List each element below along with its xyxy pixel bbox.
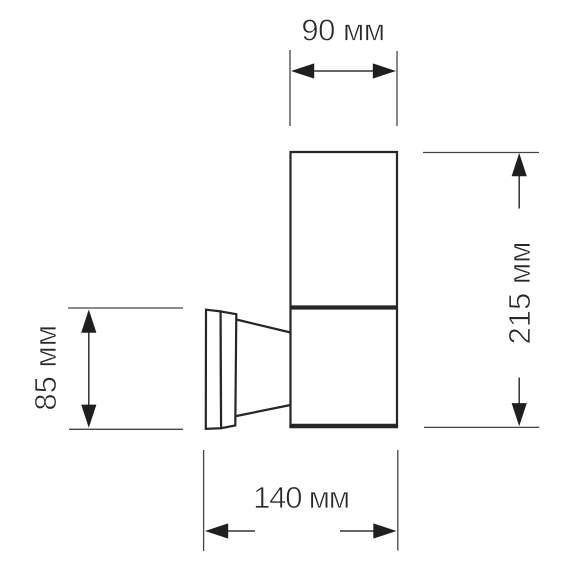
top dimension right arrowhead: [373, 63, 396, 78]
svg-text:85 мм: 85 мм: [28, 325, 63, 411]
svg-text:140 мм: 140 мм: [253, 480, 349, 515]
left dimension top extension line: [68, 307, 183, 309]
left dimension line: [88, 330, 90, 407]
bracket cone top line: [236, 320, 290, 333]
top dimension left arrowhead: [291, 63, 314, 78]
bottom dimension right arrowhead: [373, 523, 396, 538]
wall mount back plate: [206, 310, 221, 429]
right dimension top arrowhead: [512, 153, 527, 176]
bottom dimension right extension line: [397, 450, 399, 551]
lamp body cylinder outline: [291, 152, 398, 427]
left dimension bottom extension line: [69, 428, 183, 430]
right dimension bottom extension line: [424, 426, 539, 428]
lamp body section divider thick line: [290, 305, 398, 309]
wall mount front plate: [221, 311, 237, 428]
svg-text:215 мм: 215 мм: [502, 242, 537, 345]
right dimension top extension line: [423, 152, 539, 154]
lamp body bottom cap thick edge: [289, 424, 398, 428]
svg-text:90 мм: 90 мм: [301, 13, 384, 48]
top dimension left extension line: [289, 50, 291, 126]
top dimension line: [311, 70, 375, 72]
bracket cone bottom line: [236, 405, 290, 416]
right dimension bottom arrowhead: [512, 403, 527, 426]
right dimension lower line segment: [518, 378, 520, 407]
bottom dimension right tail line: [340, 530, 375, 532]
right dimension upper line segment: [518, 173, 520, 209]
bottom dimension left arrowhead: [205, 523, 228, 538]
top dimension right extension line: [396, 51, 398, 126]
bottom dimension left extension line: [203, 450, 205, 551]
bottom dimension left tail line: [226, 530, 255, 532]
left dimension top arrowhead: [81, 310, 96, 333]
left dimension bottom arrowhead: [81, 405, 96, 428]
